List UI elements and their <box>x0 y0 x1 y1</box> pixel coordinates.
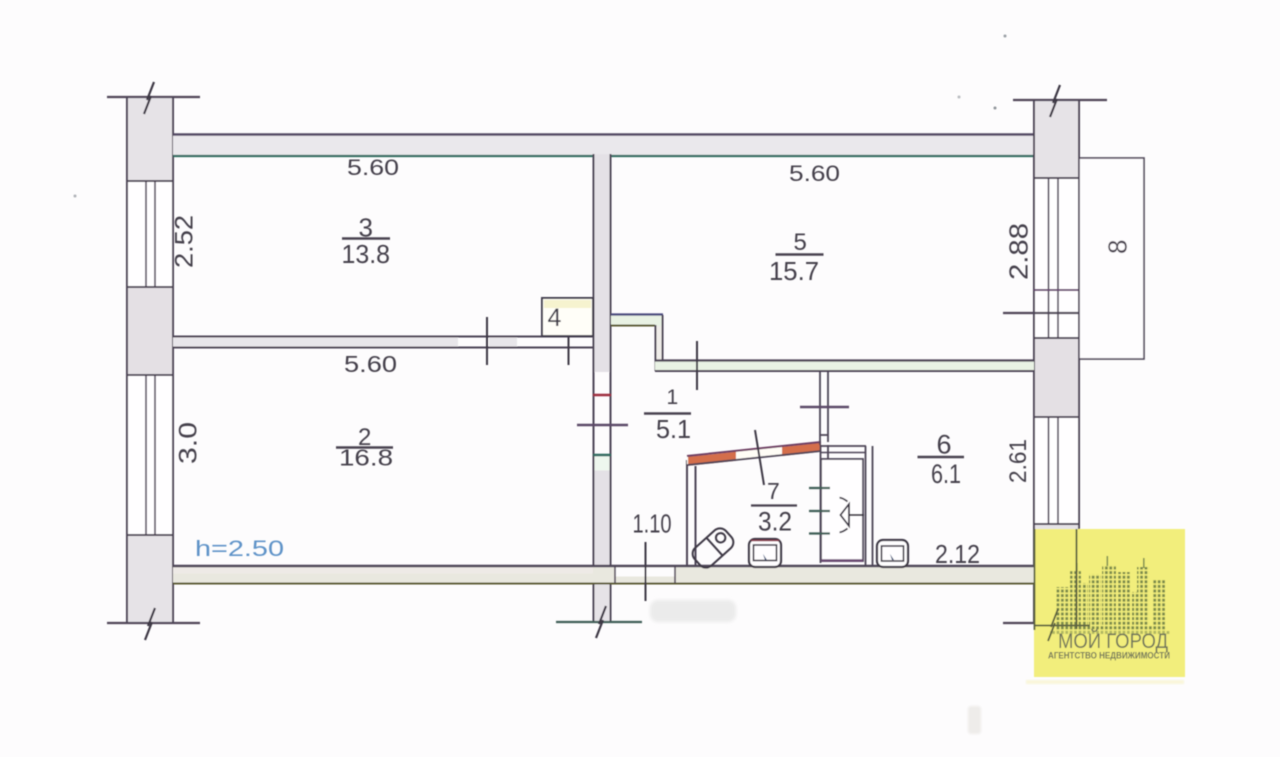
axis tick bottom-left <box>107 608 200 640</box>
window W2 left (3.0) <box>127 375 173 535</box>
right exterior column gray mid block <box>1034 338 1079 417</box>
svg-text:3.2: 3.2 <box>758 507 792 537</box>
central wall red lintel line <box>593 394 611 397</box>
toilet inner box <box>821 459 863 561</box>
corridor step wall vertical <box>655 315 663 371</box>
scan artifact gray patch <box>650 600 736 622</box>
window right (2.61) <box>1034 417 1079 524</box>
central wall <box>593 154 611 623</box>
room label 6 / 6.1 <box>918 430 965 490</box>
axis tick top-right <box>1013 85 1107 117</box>
svg-text:7: 7 <box>767 478 780 504</box>
window/balcony-door right (2.88) <box>1034 178 1079 338</box>
svg-text:13.8: 13.8 <box>342 239 391 269</box>
logo yellow box <box>1034 529 1185 677</box>
bathtub <box>689 525 736 571</box>
toilet compartment walls <box>821 445 873 566</box>
svg-text:5.60: 5.60 <box>789 161 840 186</box>
svg-text:АГЕНТСТВО НЕДВИЖИМОСТИ: АГЕНТСТВО НЕДВИЖИМОСТИ <box>1048 651 1170 661</box>
room label 3 / 13.8 <box>342 213 391 270</box>
svg-text:4: 4 <box>548 304 562 332</box>
scan specks <box>1004 35 1007 38</box>
axis tick top-left <box>107 82 200 114</box>
right exterior column gray top block <box>1034 100 1079 178</box>
bathroom slanted wall with orange fill <box>687 442 821 466</box>
svg-text:2.88: 2.88 <box>1004 223 1034 280</box>
svg-text:2.12: 2.12 <box>935 539 980 569</box>
svg-text:2.61: 2.61 <box>1005 439 1032 483</box>
wall lines showing through logo <box>1034 529 1090 641</box>
door tick corridor/kitchen <box>800 406 849 408</box>
axis tick bottom-center <box>556 606 642 638</box>
dimension tick right column mid <box>1003 312 1111 314</box>
bottom exterior wall <box>173 566 1034 584</box>
central wall door tick <box>577 424 628 427</box>
top exterior wall <box>173 134 1034 157</box>
svg-text:МОЙ ГОРОД: МОЙ ГОРОД <box>1058 628 1168 653</box>
svg-text:5.60: 5.60 <box>347 155 399 180</box>
washbasin fixture left <box>749 539 781 567</box>
entry door gap in bottom wall <box>615 567 675 583</box>
door tick B on wall 3/2 <box>568 317 570 365</box>
bathroom left wall <box>687 460 696 566</box>
svg-text:15.7: 15.7 <box>769 256 819 286</box>
wall left column gray top block <box>127 97 173 181</box>
closet room 4 box <box>542 298 593 336</box>
svg-text:8: 8 <box>1103 240 1133 254</box>
right exterior column bottom stub <box>1034 524 1079 623</box>
wall rooms5/6 over corridor <box>655 361 1034 372</box>
room label 5 / 15.7 <box>769 229 824 286</box>
toilet compartment upper wall <box>820 372 828 445</box>
door tick on wall 5/6 <box>696 341 698 390</box>
interior wall rooms 3/2 <box>173 336 593 348</box>
svg-text:1.10: 1.10 <box>633 509 672 539</box>
svg-text:1: 1 <box>667 386 679 409</box>
svg-text:2.52: 2.52 <box>171 215 199 268</box>
room label 7 / 3.2 <box>751 478 797 537</box>
svg-text:h=2.50: h=2.50 <box>195 536 284 561</box>
dim tick 1.10 crossing bottom wall <box>645 542 647 601</box>
svg-text:3.0: 3.0 <box>175 422 203 464</box>
bathroom door leaf line <box>755 430 764 485</box>
svg-text:5: 5 <box>794 229 807 256</box>
balcony room 8 outline <box>1079 158 1144 359</box>
svg-text:5.1: 5.1 <box>656 414 691 444</box>
wall left column gray mid block <box>127 287 173 375</box>
svg-text:16.8: 16.8 <box>339 445 393 471</box>
svg-text:6: 6 <box>937 430 952 460</box>
window W1 left (2.52) <box>127 181 173 287</box>
svg-text:6.1: 6.1 <box>931 459 961 489</box>
central wall teal sill line <box>593 454 611 456</box>
ticks on toilet wall <box>809 488 830 534</box>
door tick A on wall 3/2 <box>486 317 488 365</box>
axis tick bottom-right (left of logo) <box>1003 622 1034 624</box>
room label 1 / 5.1 <box>644 386 691 444</box>
door symbol in toilet compartment <box>840 498 865 532</box>
washbasin fixture right <box>877 540 908 567</box>
room label 2 / 16.8 <box>336 424 393 471</box>
svg-text:5.60: 5.60 <box>344 351 397 377</box>
wall left column gray bottom block <box>127 535 173 623</box>
corridor step wall top <box>611 314 663 326</box>
